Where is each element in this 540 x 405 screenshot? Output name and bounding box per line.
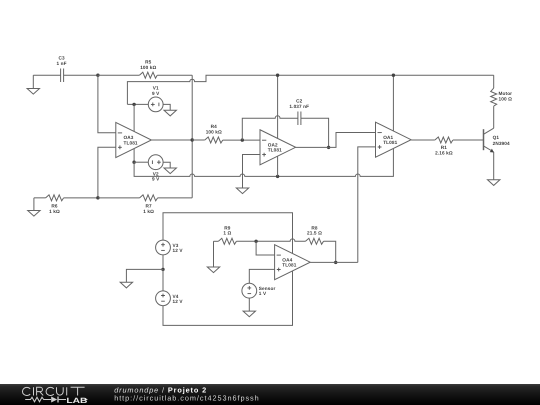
junction OA2 VS+ on top rail: [276, 74, 279, 77]
ground G3 at V2 right: [163, 162, 176, 173]
resistor R8: [306, 225, 324, 244]
wire OA2 VS- to rail: [277, 156, 279, 176]
resistor R1: [435, 137, 453, 155]
svg-text:1 kΩ: 1 kΩ: [143, 209, 154, 214]
svg-text:TL081: TL081: [268, 148, 282, 153]
op-amp OA1: [376, 122, 412, 157]
svg-text:TL081: TL081: [124, 140, 138, 145]
resistor R9: [218, 225, 236, 244]
wire OA1 plus input down to OA4 output, hop over rail: [358, 147, 376, 263]
wire Q1 collector up to Motor: [493, 106, 495, 128]
logo wire with resistor: [25, 397, 51, 402]
wire Sensor to ground: [248, 298, 250, 311]
wire R6 to bottom node: [64, 197, 98, 199]
svg-text:http://circuitlab.com/ct4253n6: http://circuitlab.com/ct4253n6fpssh: [114, 393, 259, 402]
voltage source V1: [127, 86, 163, 112]
wire R9 left: [214, 240, 219, 242]
wire vertical x=192 (R5/output net) with hops crossed over it: [191, 75, 193, 198]
svg-text:R1: R1: [441, 145, 448, 150]
svg-text:R8: R8: [311, 225, 318, 230]
wire VS- rail from V2 node to OA1 VS- with hops: [134, 149, 393, 177]
junction OA1 VS+ on top rail: [392, 74, 395, 77]
logo CIRCUIT lettering: [22, 387, 84, 395]
svg-text:Q1: Q1: [493, 135, 500, 140]
wire R9 to R8 with hop over OA4 VS+: [236, 239, 305, 241]
junction C2 left on OA2 minus wire: [241, 138, 244, 141]
wire V4 bottom rail to OA4 VS-: [163, 271, 293, 325]
node A junction (98,75): [96, 74, 99, 77]
wire OA3 output to junction: [151, 139, 192, 141]
wire node A down to OA3 minus input: [98, 75, 116, 133]
wire OA3 VS- pin: [133, 149, 135, 163]
svg-text:1 V: 1 V: [259, 291, 267, 296]
footer bar: [0, 384, 540, 405]
transistor Q1: [484, 128, 511, 152]
wire R7 to x=192 vertical: [158, 197, 193, 199]
ground G2 at V1 right: [163, 104, 176, 116]
junction bottom node (98,198): [96, 196, 99, 199]
wire C2 left leg with hop over OA2 VS+: [242, 116, 298, 140]
voltage source V2: [134, 155, 163, 182]
svg-text:TL081: TL081: [383, 140, 397, 145]
svg-text:R9: R9: [224, 225, 231, 230]
wire V+ net: V1 node up and over to right rail, hop at x=192: [127, 75, 493, 104]
svg-text:1 Ω: 1 Ω: [223, 231, 231, 236]
wire OA3 plus input down to bottom rail: [98, 147, 116, 198]
svg-text:TL081: TL081: [282, 263, 296, 268]
svg-text:OA1: OA1: [383, 135, 393, 140]
svg-text:OA4: OA4: [282, 257, 292, 262]
resistor Motor (100 ohm): [491, 75, 512, 106]
resistor R7: [140, 195, 158, 214]
wire C3 to node A: [64, 74, 98, 76]
ground G4 OA2 plus: [236, 188, 248, 194]
svg-text:OA3: OA3: [124, 135, 134, 140]
wire ground to R6: [34, 197, 46, 199]
junction C2 right to OA2 output: [327, 146, 330, 149]
op-amp OA3: [116, 122, 152, 157]
wire R1 to Q1 base: [453, 139, 484, 141]
svg-text:R5: R5: [145, 60, 152, 65]
junction R9 right node: [254, 240, 257, 243]
wire R8 right down to OA4 output: [324, 241, 336, 262]
resistor R4: [205, 124, 223, 143]
op-amp OA4: [275, 245, 311, 280]
capacitor C3: [57, 56, 67, 83]
wire OA2 plus input to ground: [243, 155, 261, 189]
wire OA2 output to OA1 minus: [296, 133, 376, 148]
svg-text:R4: R4: [211, 124, 218, 129]
ground G5 bottom-left: [28, 198, 40, 216]
svg-text:1.037 nF: 1.037 nF: [289, 104, 309, 109]
svg-text:100 Ω: 100 Ω: [499, 96, 513, 101]
svg-text:9 V: 9 V: [152, 177, 160, 182]
svg-text:1 nF: 1 nF: [57, 61, 67, 66]
voltage source V4: [156, 269, 184, 305]
ground G1 top-left: [27, 75, 39, 94]
ground G8 Sensor: [243, 311, 255, 317]
svg-text:12 V: 12 V: [173, 248, 184, 253]
svg-text:R7: R7: [145, 204, 152, 209]
ground G7 supply mid: [120, 282, 132, 288]
logo diode: [51, 397, 57, 403]
wire OA3 VS+ pin: [133, 104, 135, 131]
wire bottom node to R7: [98, 197, 140, 199]
junction R8 to OA4 output: [334, 261, 337, 264]
wire node down to OA4 minus input: [256, 241, 275, 255]
svg-text:2N3904: 2N3904: [493, 141, 510, 146]
wire C2 right leg: [301, 118, 329, 147]
svg-text:1 kΩ: 1 kΩ: [49, 209, 60, 214]
wire node A to R5: [98, 74, 139, 76]
svg-text:C2: C2: [296, 99, 303, 104]
svg-text:C3: C3: [58, 56, 65, 61]
junction V3/V4 mid node: [161, 268, 164, 271]
wire Q1 emitter down to ground: [493, 152, 495, 180]
svg-text:OA2: OA2: [268, 142, 278, 147]
svg-text:LAB: LAB: [66, 396, 88, 405]
svg-text:100 kΩ: 100 kΩ: [206, 130, 222, 135]
svg-text:12 V: 12 V: [173, 299, 184, 304]
wire R5 right to vertical feedback: [157, 74, 192, 76]
wire R4 to OA2 minus input: [223, 139, 260, 141]
wire OA1 VS+ from top rail: [392, 75, 394, 131]
wire V3 bottom to mid node: [162, 255, 164, 270]
svg-text:21.5 Ω: 21.5 Ω: [307, 231, 322, 236]
junction OA3 output node: [191, 138, 194, 141]
wire OA2 VS+ from top rail: [277, 75, 279, 138]
resistor R5: [139, 60, 157, 79]
ground G9 Q1 emitter: [488, 180, 500, 186]
wire mid node to ground: [126, 269, 163, 282]
capacitor C2: [289, 99, 309, 125]
ground G6 at R9 left: [207, 241, 219, 272]
wire OA4 output: [310, 261, 358, 263]
resistor R6: [46, 195, 64, 214]
svg-text:9 V: 9 V: [152, 91, 160, 96]
junction V2 left node: [132, 161, 135, 164]
voltage source V3: [156, 240, 184, 255]
voltage source Sensor: [242, 283, 276, 298]
svg-text:2.16 kΩ: 2.16 kΩ: [435, 150, 453, 155]
wire OA3 output to R4: [192, 139, 205, 141]
wire OA4 plus input to Sensor: [249, 269, 274, 283]
wire OA1 output to R1: [411, 139, 435, 141]
junction V1 left node: [132, 103, 135, 106]
svg-text:R6: R6: [51, 204, 58, 209]
svg-text:100 kΩ: 100 kΩ: [140, 65, 156, 70]
junction OA2 VS- on rail: [276, 175, 279, 178]
wire V3 top to OA4 VS+: [163, 213, 293, 254]
op-amp OA2: [260, 130, 296, 165]
wire top-left rail to C3: [33, 74, 60, 76]
